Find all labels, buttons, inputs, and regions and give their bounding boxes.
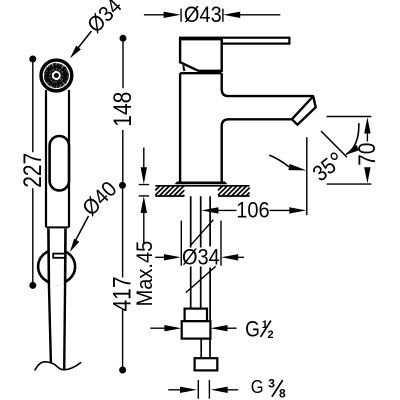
shower handle lower body fill bbox=[48, 229, 65, 285]
dimension G three-eighths bbox=[168, 376, 286, 400]
svg-text:Max.45: Max.45 bbox=[133, 241, 157, 307]
svg-text:Ø34: Ø34 bbox=[182, 246, 220, 270]
shower handle grip slot bbox=[50, 136, 69, 191]
shower hose bbox=[49, 284, 65, 369]
faucet body top line bbox=[180, 72, 222, 74]
svg-text:227: 227 bbox=[18, 153, 46, 188]
faucet lever bar bbox=[180, 38, 289, 44]
G three-eighths end box bbox=[195, 358, 218, 370]
svg-text:417: 417 bbox=[108, 276, 136, 311]
deck hatching left bbox=[155, 186, 184, 196]
dimension 106 bbox=[201, 137, 306, 223]
shower handle upper body bbox=[46, 90, 69, 227]
dimension 417 bbox=[108, 189, 136, 374]
dimension O43 bbox=[144, 3, 280, 27]
swivel 35deg arc bbox=[346, 123, 359, 154]
label O34 shower head bbox=[70, 0, 127, 58]
shower head center dot bbox=[54, 73, 59, 78]
svg-text:G: G bbox=[245, 317, 260, 342]
spout bottom and lower body right edge bbox=[222, 119, 292, 181]
dimension 227 bbox=[18, 56, 46, 289]
supply pipe axis line bbox=[200, 196, 202, 308]
deck top line bbox=[155, 185, 249, 187]
shower head outer ring bbox=[41, 60, 72, 91]
svg-text:3: 3 bbox=[268, 377, 275, 391]
faucet body left edge bbox=[179, 73, 181, 182]
shower head spray starburst bbox=[44, 63, 69, 88]
lever wedge line bbox=[183, 65, 184, 71]
dimension G half bbox=[150, 317, 273, 342]
dimension O34 shank bbox=[155, 220, 244, 293]
holder clip bbox=[53, 254, 65, 258]
shower handle lower body bbox=[48, 229, 65, 284]
svg-text:Ø43: Ø43 bbox=[184, 3, 222, 27]
svg-text:G: G bbox=[251, 376, 264, 397]
supply pipe left wall bbox=[190, 196, 192, 308]
faucet cartridge block bbox=[180, 39, 222, 71]
dimension 148 bbox=[108, 35, 136, 189]
wall holder circle bbox=[38, 249, 75, 283]
svg-text:148: 148 bbox=[108, 92, 136, 127]
dimension 70 bbox=[327, 117, 381, 185]
label O40 holder bbox=[70, 177, 122, 252]
shank coupling box bbox=[185, 309, 207, 322]
svg-text:70: 70 bbox=[354, 143, 381, 166]
shower handle joint line bbox=[46, 226, 68, 228]
aerator tip bbox=[292, 96, 316, 124]
swivel 35deg line bbox=[321, 131, 347, 157]
faucet body right edge and spout top bbox=[222, 73, 313, 96]
svg-text:2: 2 bbox=[268, 329, 274, 341]
G half nut box bbox=[182, 321, 211, 338]
hose break wave bbox=[35, 362, 81, 371]
svg-text:8: 8 bbox=[279, 387, 286, 400]
dimension Max.45 bbox=[133, 148, 157, 307]
base flange bbox=[175, 182, 228, 185]
deck hatching right bbox=[218, 186, 250, 196]
supply pipe right wall bbox=[209, 196, 211, 321]
pipe below nut bbox=[201, 339, 210, 359]
svg-text:106: 106 bbox=[236, 199, 269, 223]
swivel direction arc left bbox=[269, 155, 289, 167]
deck bottom line bbox=[155, 195, 249, 197]
